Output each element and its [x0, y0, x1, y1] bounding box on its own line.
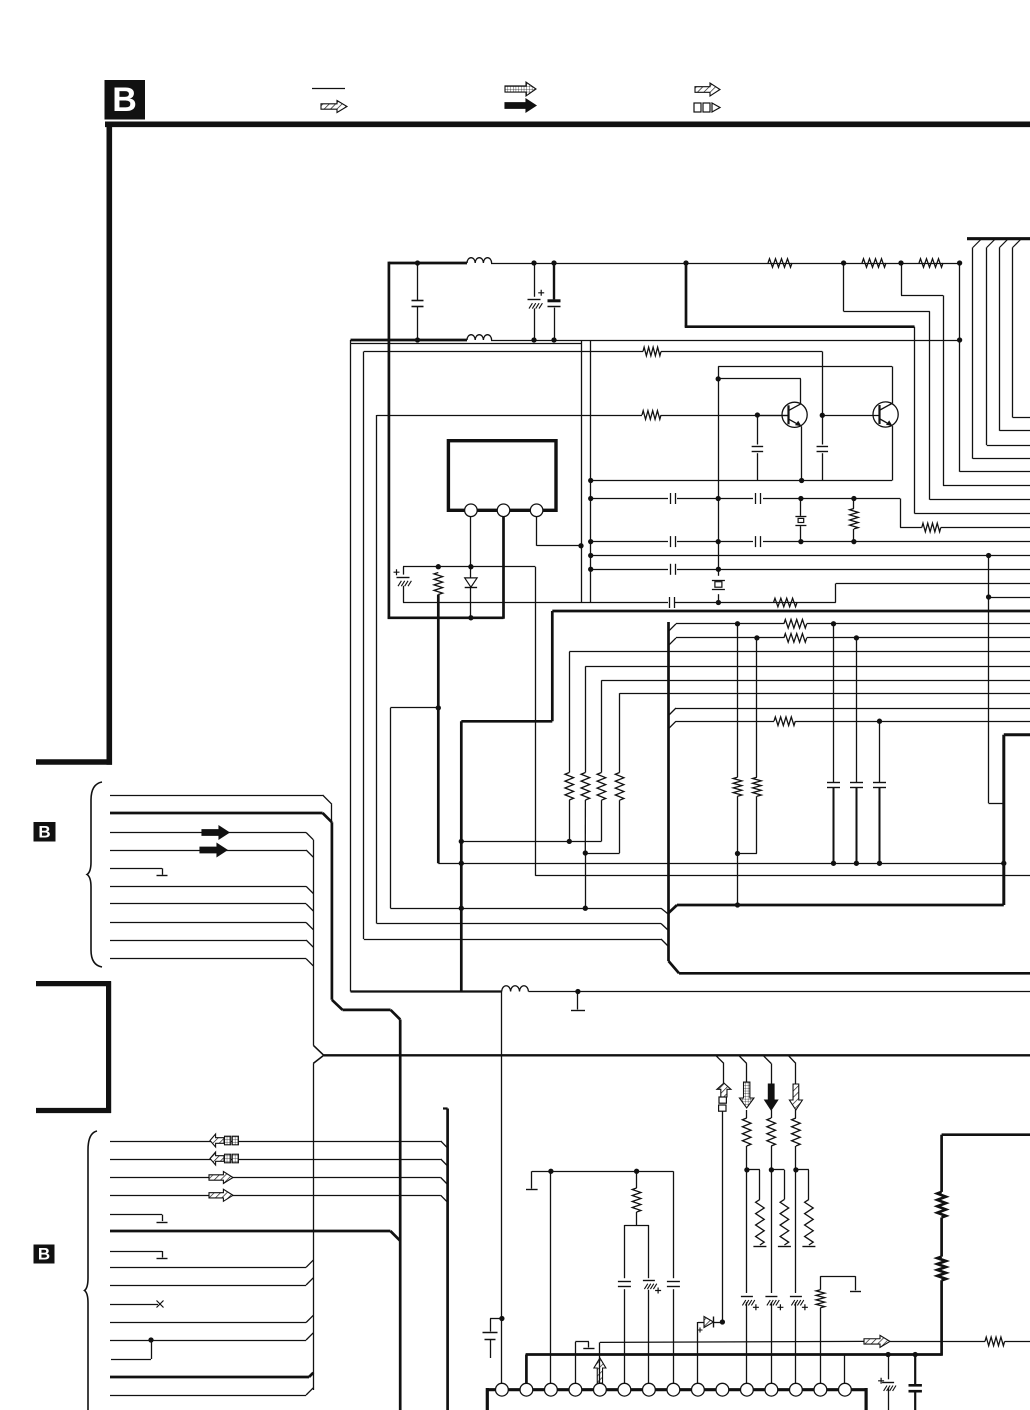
resistor hang 3: [796, 1170, 816, 1247]
arrow sym up-boxes: [717, 1064, 731, 1323]
wire v590: [588, 340, 593, 603]
arrow sym down grid: [739, 1064, 754, 1119]
wire row841: [459, 800, 602, 844]
resistor R6: [434, 573, 443, 864]
pin5 riser arrow: [594, 1342, 606, 1383]
resistor R2: [862, 259, 886, 268]
bus wire TR2: [1000, 240, 1030, 431]
resistor R23: [937, 1257, 946, 1281]
transistor Q2: [873, 366, 898, 480]
resistor R15: [784, 634, 807, 643]
wire A main: [403, 584, 1030, 603]
svg-text:B: B: [112, 81, 137, 119]
bus brace (middle-left group): [87, 782, 102, 967]
capacitor C16: [873, 721, 886, 866]
capacitor C19: [483, 1319, 502, 1359]
IC pin circles: [465, 504, 543, 517]
crystal X1: [712, 569, 725, 602]
IC U1: [448, 441, 556, 511]
capacitor C25: [671, 564, 676, 575]
resistor R11: [581, 666, 590, 910]
bus U1: [110, 795, 332, 804]
capacitor C23: [671, 493, 676, 504]
inductor L2: [467, 335, 492, 340]
resistor R10: [565, 652, 574, 842]
wire VCC top: [389, 262, 960, 265]
elcap C4: [394, 567, 412, 603]
band line7: [669, 708, 1030, 716]
diode D1: [465, 517, 477, 621]
rail drop 552: [459, 611, 553, 992]
wire v988: [986, 556, 1030, 804]
wire R23 down: [940, 1280, 943, 1356]
bus U9: [110, 940, 313, 947]
wire base row Q1: [757, 415, 788, 417]
band line2: [669, 635, 1030, 645]
bus U2 thick: [110, 813, 332, 822]
capacitor C1: [412, 260, 424, 342]
bus vertical 447 thick: [443, 1109, 448, 1410]
capacitor C13: [756, 536, 761, 547]
bus D1: [110, 1141, 448, 1148]
resistor R14: [784, 620, 807, 629]
wire GND thick bottom: [388, 616, 504, 619]
wire base row Q2: [822, 415, 879, 417]
capacitor C24: [671, 536, 676, 547]
capacitor C12: [756, 493, 761, 504]
wire IC mid thick: [502, 517, 505, 619]
node R3 end: [957, 260, 1030, 471]
pin8 branch: [673, 1171, 675, 1383]
pin3 riser: [550, 1171, 552, 1383]
pin14 riser: [816, 1276, 861, 1383]
svg-text:B: B: [38, 823, 50, 842]
wire row1341: [600, 1341, 1030, 1342]
resistor hang 2: [771, 1170, 791, 1247]
bus U4 arrow: [200, 844, 227, 857]
capacitor C10: [817, 447, 829, 452]
wire row344: [351, 340, 582, 344]
bus D8: [110, 1260, 313, 1267]
rail 1354 thick: [526, 1352, 942, 1357]
wire rect top: [403, 564, 535, 569]
wire row853: [583, 800, 620, 855]
legend arrow boxes right: [694, 103, 720, 112]
resistor R22: [937, 1192, 946, 1218]
elcap pin13: [790, 1297, 808, 1384]
bus D3: [110, 1178, 448, 1185]
bus thick row mid: [685, 325, 915, 328]
row 1171: [532, 1169, 674, 1174]
node T1 base: [755, 412, 760, 480]
wire base T2 drop: [820, 352, 825, 481]
wire collector bus: [716, 366, 892, 569]
inductor L1: [467, 258, 492, 263]
band line4: [585, 666, 1030, 668]
bus D13 thick: [110, 1373, 313, 1377]
elcap C21: [643, 1281, 661, 1294]
bus vertical 313: [313, 840, 324, 1390]
box lower-right: [1004, 735, 1030, 905]
bus drop 3: [763, 1055, 771, 1063]
bus D4: [110, 1195, 448, 1202]
bus U3: [110, 833, 313, 840]
page border left rail: [36, 122, 112, 765]
stub T row991: [571, 992, 585, 1011]
pin4 riser: [575, 1342, 594, 1384]
bus bar top-right: [967, 237, 1030, 240]
IC U2 pins: [496, 1383, 852, 1396]
bus U8: [110, 923, 313, 930]
bus vertical 332: [332, 804, 401, 1019]
bus U6: [110, 886, 313, 893]
svg-text:B: B: [38, 1245, 50, 1264]
wire left v376: [377, 415, 669, 931]
inductor L3: [502, 986, 529, 992]
arrow sym down black: [765, 1064, 778, 1119]
bus D7 stub: [110, 1251, 168, 1259]
arrow sym down hatch: [789, 1064, 802, 1119]
resistor R12: [597, 680, 606, 800]
bus U7: [110, 904, 313, 912]
legend arrow hatched right: [321, 101, 347, 113]
capacitor C14: [827, 624, 840, 866]
band line8: [669, 719, 1030, 729]
capacitor C3: [548, 260, 561, 342]
resistor R8: [922, 523, 941, 532]
rail thick 611: [552, 610, 1030, 613]
wire R22-R23: [940, 1218, 943, 1257]
resistor R3: [919, 259, 943, 268]
pin9 riser zener: [698, 1317, 726, 1384]
pin15 riser: [844, 1355, 846, 1384]
wire left v363: [364, 352, 669, 947]
bus D5 stub: [110, 1215, 168, 1223]
bus D3 arrow: [209, 1172, 233, 1184]
wire row480 emitters: [591, 480, 892, 482]
arrow row1341: [864, 1335, 890, 1347]
rail row863: [438, 861, 1006, 866]
band line1: [669, 621, 1030, 631]
wire IC right pin: [537, 517, 584, 549]
bus drop 1: [716, 1055, 724, 1063]
wire v581: [581, 340, 583, 603]
resistor R9: [850, 499, 859, 542]
band line6: [620, 693, 1030, 695]
wire row351: [364, 351, 823, 353]
bus U10: [110, 959, 313, 966]
resistor R1: [768, 259, 792, 268]
bus D2 arrow: [210, 1152, 238, 1165]
bus D12: [110, 1333, 313, 1360]
wire row541: [591, 539, 1030, 544]
wire row498 to R: [900, 499, 1030, 528]
bus D1 arrow: [210, 1134, 238, 1147]
bus vertical 400 thick: [399, 1020, 402, 1410]
resistor R17: [733, 624, 742, 908]
band line3: [569, 651, 1030, 653]
rail row973 thick: [679, 972, 1030, 975]
bus drop 2: [739, 1055, 747, 1063]
resistor hang 1: [747, 1170, 767, 1247]
elcap pin12: [765, 1297, 783, 1384]
bus D9: [110, 1278, 313, 1286]
pin2 riser thick: [525, 1355, 528, 1384]
resistor R18: [738, 638, 762, 854]
node top corner: [683, 260, 688, 326]
bus wire TR1: [1013, 240, 1030, 418]
resistor R4: [643, 347, 661, 356]
resistor R16: [774, 717, 795, 726]
IC U2 box: [487, 1388, 866, 1410]
bus brace (bottom-left group): [85, 1131, 98, 1410]
capacitor C20: [618, 1282, 631, 1287]
legend arrow hatch2 right: [695, 83, 720, 96]
rail row905 thick: [669, 905, 1004, 913]
capacitor C15: [850, 638, 863, 866]
wire left v350: [350, 344, 352, 992]
zone label B (top): [105, 80, 146, 120]
resistor R13: [615, 693, 624, 800]
resistor R20: [767, 1118, 776, 1293]
stub row1171: [526, 1171, 538, 1189]
wire v535: [535, 567, 1030, 876]
elcap C17: [878, 1355, 896, 1410]
bus wire TR4: [973, 240, 1030, 459]
bus U4: [110, 850, 313, 857]
bus U5 stub: [110, 868, 168, 875]
bus D10 nc: [110, 1301, 164, 1308]
capacitor C22: [667, 1282, 680, 1287]
node R2-R3: [898, 260, 1030, 485]
bus wire TR3: [987, 240, 1030, 446]
bus drop 4: [788, 1055, 796, 1063]
wire row708 jog: [390, 705, 668, 914]
bus D14: [110, 1388, 313, 1396]
capacitor C11: [670, 597, 675, 608]
wire row415: [377, 415, 789, 417]
capacitor C9: [752, 447, 764, 452]
elcap pin11: [741, 1297, 759, 1384]
band line5: [601, 680, 1030, 682]
wire row555: [591, 553, 1030, 558]
bus D6 thick: [110, 1231, 400, 1241]
bus rail 1055: [324, 1054, 1030, 1056]
wire row498: [591, 496, 900, 501]
bus U3 arrow: [202, 826, 229, 839]
bus D4 arrow: [209, 1189, 233, 1201]
node R1-R2: [841, 260, 1030, 499]
capacitor C18 thick: [909, 1355, 922, 1410]
rail thick 668: [669, 622, 680, 973]
node xtal-A: [716, 600, 721, 605]
wire GND mid: [351, 339, 960, 342]
legend arrow solid right: [505, 99, 536, 112]
resistor R21: [792, 1118, 801, 1293]
resistor R24: [985, 1337, 1005, 1346]
legend arrow grid right: [505, 82, 536, 96]
wire 914 drop: [915, 327, 1030, 514]
wire row569: [591, 567, 1030, 572]
crystal X2: [795, 499, 806, 542]
zone label B (bottom-left): [34, 1245, 55, 1264]
rail 1134 corner: [942, 1135, 1030, 1192]
page border lower-left bracket: [36, 981, 111, 1113]
wire thick left drop: [388, 262, 391, 619]
elcap C2: [528, 260, 545, 342]
legend plain line: [312, 88, 345, 90]
pin1 riser: [499, 992, 504, 1384]
transistor Q1: [782, 379, 807, 483]
zone label B (middle-left): [34, 822, 56, 842]
resistor R19: [742, 1118, 751, 1293]
resistor R7: [774, 598, 798, 607]
bus D11: [110, 1315, 313, 1322]
rail row991 inductor: [351, 989, 1030, 994]
resistor R25: [624, 1171, 649, 1383]
bus D2: [110, 1159, 448, 1166]
page border top rail: [105, 122, 1030, 128]
resistor R5: [642, 411, 661, 420]
